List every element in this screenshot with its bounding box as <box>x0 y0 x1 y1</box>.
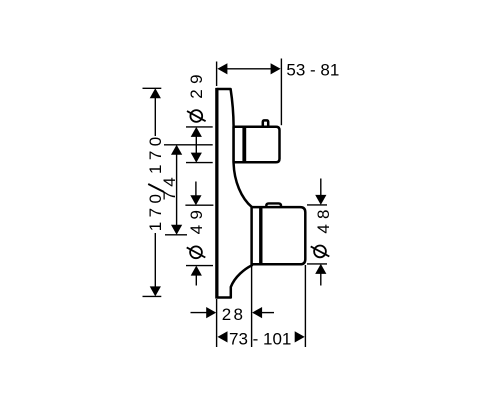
upper handle tab <box>263 120 268 128</box>
dimension 53-81 line <box>225 68 272 70</box>
svg-text:53 - 81: 53 - 81 <box>286 61 339 80</box>
lower handle tab (temperature marker) <box>266 203 281 208</box>
upper handle body (shut-off handle) <box>234 127 280 163</box>
extension line left (wall plane, top) <box>216 62 218 87</box>
dimension 28 line + arrows (outside) <box>191 312 208 314</box>
dimension Ø48 ticks <box>307 204 327 206</box>
dimension Ø48 arrows (outside) <box>320 179 322 196</box>
diameter symbol of Ø49 <box>190 246 202 258</box>
lower handle body (thermostat handle) <box>252 207 306 264</box>
dimension Ø29 line + arrows <box>195 135 197 155</box>
extension line right of 53-81 (handle face) <box>280 59 282 126</box>
lower handle joint line <box>259 207 262 264</box>
dimension Ø29 ticks <box>186 126 213 128</box>
dimension 74 line + arrows <box>176 152 178 228</box>
svg-text:49: 49 <box>187 204 206 234</box>
svg-text:28: 28 <box>222 305 246 324</box>
extension line middle bottom (plate depth 28) <box>251 266 253 347</box>
extension line right bottom (handle face 73-101) <box>304 265 306 347</box>
svg-text:73 - 101: 73 - 101 <box>229 330 291 349</box>
svg-text:29: 29 <box>187 69 206 99</box>
plate left (wall) edge emphasised <box>215 88 218 299</box>
diameter symbol of Ø29 <box>190 110 202 122</box>
dimension Ø49 arrows (outside) <box>195 182 197 197</box>
dimension 170/170 ticks <box>143 87 162 89</box>
svg-text:74: 74 <box>160 173 179 200</box>
dimension 73-101 arrows (inside) <box>218 331 228 342</box>
upper handle joint line <box>242 127 246 163</box>
dimension 170/170 line + arrows <box>154 95 156 136</box>
svg-text:48: 48 <box>314 204 333 233</box>
diameter symbol of Ø48 <box>314 246 326 258</box>
svg-text:170: 170 <box>146 132 165 174</box>
dimension 74 ticks <box>164 144 213 146</box>
extension line left bottom (wall plane, below plate) <box>216 299 218 347</box>
dimension Ø49 ticks <box>185 204 213 206</box>
plate wall edge (thick) drawn after plate below <box>217 89 252 298</box>
